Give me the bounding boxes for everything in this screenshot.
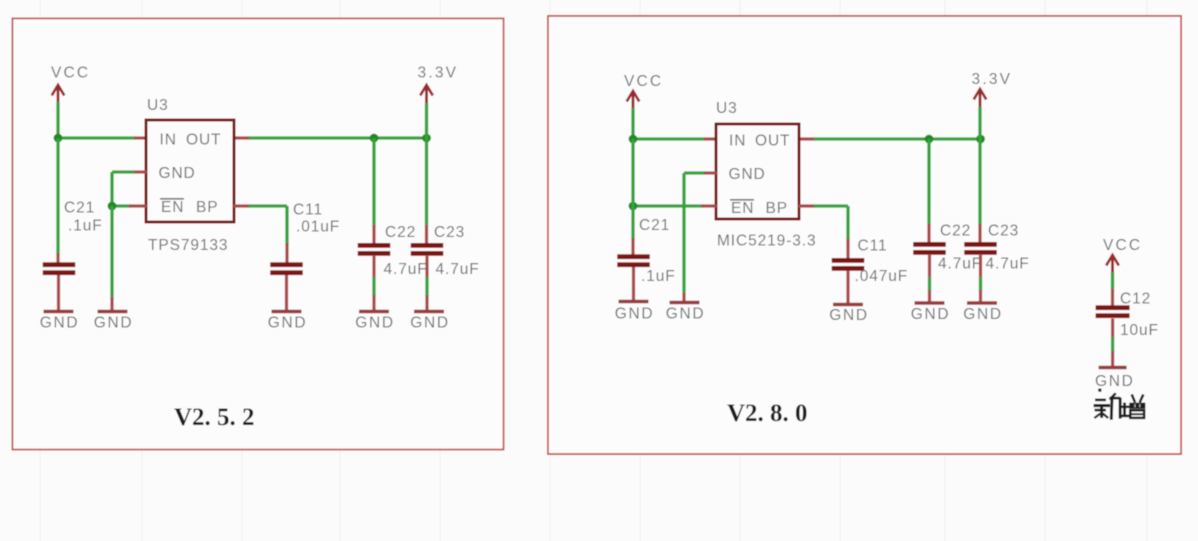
svg-text:GND: GND — [911, 306, 951, 323]
svg-text:4.7uF: 4.7uF — [938, 256, 982, 273]
svg-text:.01uF: .01uF — [296, 219, 340, 236]
svg-text:C11: C11 — [293, 202, 323, 219]
svg-text:MIC5219-3.3: MIC5219-3.3 — [717, 233, 817, 250]
svg-text:GND: GND — [615, 306, 655, 323]
svg-text:OUT: OUT — [186, 132, 221, 149]
svg-text:EN: EN — [731, 200, 754, 217]
svg-text:3.3V: 3.3V — [418, 65, 459, 82]
svg-text:IN: IN — [729, 133, 746, 150]
svg-text:OUT: OUT — [755, 133, 790, 150]
svg-text:C21: C21 — [64, 200, 95, 217]
svg-text:GND: GND — [666, 306, 706, 323]
svg-text:VCC: VCC — [51, 65, 90, 82]
svg-text:GND: GND — [159, 165, 196, 182]
svg-text:TPS79133: TPS79133 — [148, 237, 228, 254]
svg-text:IN: IN — [160, 132, 177, 149]
svg-text:EN: EN — [161, 199, 184, 216]
svg-text:C22: C22 — [940, 223, 971, 240]
svg-text:GND: GND — [410, 315, 450, 332]
svg-text:10uF: 10uF — [1120, 322, 1159, 339]
svg-text:C11: C11 — [858, 238, 888, 255]
svg-text:BP: BP — [196, 199, 218, 216]
svg-text:GND: GND — [963, 306, 1003, 323]
svg-text:VCC: VCC — [1103, 237, 1142, 254]
svg-text:V2. 5. 2: V2. 5. 2 — [174, 404, 255, 431]
svg-text:U3: U3 — [716, 100, 738, 117]
svg-text:BP: BP — [766, 200, 788, 217]
svg-text:4.7uF: 4.7uF — [986, 256, 1030, 273]
svg-text:GND: GND — [94, 315, 134, 332]
svg-text:.047uF: .047uF — [855, 268, 909, 285]
svg-text:4.7uF: 4.7uF — [436, 261, 480, 278]
svg-text:C23: C23 — [988, 223, 1019, 240]
svg-text:3.3V: 3.3V — [972, 71, 1013, 88]
svg-text:V2. 8. 0: V2. 8. 0 — [727, 400, 808, 427]
svg-text:C12: C12 — [1120, 291, 1151, 308]
svg-text:C21: C21 — [639, 217, 670, 234]
svg-text:.1uF: .1uF — [641, 268, 676, 285]
svg-text:C22: C22 — [385, 224, 416, 241]
svg-text:GND: GND — [729, 166, 766, 183]
svg-text:GND: GND — [355, 315, 395, 332]
svg-text:GND: GND — [268, 315, 308, 332]
svg-text:.1uF: .1uF — [68, 218, 103, 235]
svg-text:GND: GND — [1095, 373, 1135, 390]
svg-text:4.7uF: 4.7uF — [384, 261, 428, 278]
svg-text:C23: C23 — [434, 224, 465, 241]
svg-text:U3: U3 — [147, 97, 169, 114]
svg-text:VCC: VCC — [624, 73, 663, 90]
svg-text:GND: GND — [40, 315, 80, 332]
svg-text:GND: GND — [829, 307, 869, 324]
